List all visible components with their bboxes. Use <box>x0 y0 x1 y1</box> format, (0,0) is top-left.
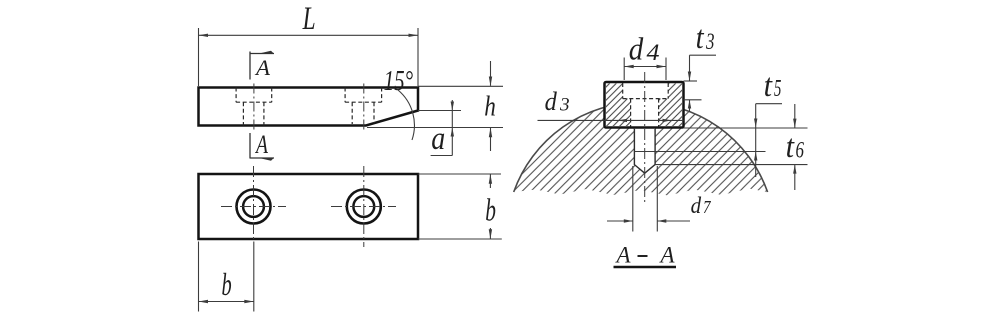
svg-text:3: 3 <box>705 29 714 54</box>
svg-text:d: d <box>545 87 558 116</box>
svg-text:h: h <box>484 91 496 123</box>
svg-text:d: d <box>691 193 702 218</box>
svg-text:t: t <box>696 20 705 56</box>
svg-text:t: t <box>786 129 795 165</box>
svg-text:6: 6 <box>796 137 805 162</box>
svg-text:a: a <box>431 121 445 157</box>
svg-text:b: b <box>222 266 232 302</box>
svg-text:A: A <box>615 243 632 268</box>
svg-text:3: 3 <box>559 94 570 115</box>
svg-text:15°: 15° <box>384 65 414 97</box>
svg-text:4: 4 <box>647 40 660 65</box>
svg-text:7: 7 <box>703 197 712 217</box>
svg-text:A: A <box>659 243 676 268</box>
svg-text:5: 5 <box>774 76 781 102</box>
svg-text:A: A <box>254 55 271 80</box>
svg-text:t: t <box>764 68 773 104</box>
svg-text:L: L <box>302 1 316 37</box>
svg-text:d: d <box>629 31 644 67</box>
svg-text:A: A <box>254 130 268 159</box>
svg-text:b: b <box>485 191 496 227</box>
